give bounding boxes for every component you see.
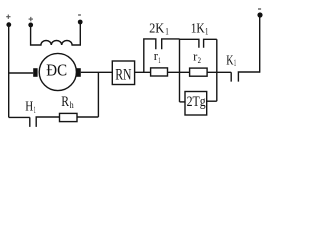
wire junction down to Rh branch bbox=[97, 72, 99, 117]
svg-text:R: R bbox=[61, 94, 69, 110]
wire right vertical up to -4 bbox=[259, 15, 261, 73]
svg-text:2K: 2K bbox=[149, 21, 164, 36]
node leg right of 1K1 down to 2Tg right bbox=[216, 39, 218, 101]
resistor r1 bbox=[151, 68, 168, 76]
wire r1 to r2 bbox=[168, 71, 190, 73]
relay RN box (thermal) bbox=[112, 61, 134, 85]
contact 2K1 (shorting contact over r1) bbox=[144, 39, 180, 72]
terminal +2 (field winding positive) bbox=[28, 17, 33, 27]
svg-text:h: h bbox=[70, 101, 74, 111]
time relay coil 2Tg bbox=[180, 92, 217, 116]
wire motor right brush to relay RN bbox=[81, 71, 113, 73]
resistor Rh (starting rheostat) bbox=[60, 113, 78, 121]
svg-text:ĐC: ĐC bbox=[46, 61, 67, 80]
wire from left vertical to motor left brush bbox=[9, 72, 34, 74]
svg-text:1K: 1K bbox=[191, 21, 205, 36]
contact K1 (line contactor) bbox=[231, 72, 260, 82]
wire RN to r1 bbox=[135, 71, 151, 73]
wire bottom left to H1 contact bbox=[9, 116, 30, 118]
contact 1K1 (shorting contact over r2) bbox=[180, 39, 217, 48]
svg-text:2Tg: 2Tg bbox=[187, 94, 206, 110]
svg-text:RN: RN bbox=[115, 67, 131, 84]
svg-text:1: 1 bbox=[34, 105, 36, 115]
wire r2 to K1 contact bbox=[207, 71, 231, 73]
contact H1 (field weakening / starting contact) bbox=[30, 117, 60, 127]
wire Rh to junction vertical bbox=[77, 116, 98, 118]
terminal -3 (field winding negative) bbox=[78, 15, 83, 24]
terminal -4 (right negative supply) bbox=[257, 9, 262, 18]
svg-text:1: 1 bbox=[234, 58, 236, 68]
svg-text:H: H bbox=[25, 100, 33, 115]
DC motor ĐC bbox=[33, 53, 81, 90]
svg-text:1: 1 bbox=[205, 26, 208, 36]
node leg between contacts down to 2Tg left bbox=[179, 39, 181, 102]
field winding CKT (inductor) bbox=[31, 22, 81, 45]
svg-text:1: 1 bbox=[165, 26, 169, 36]
svg-text:K: K bbox=[226, 52, 233, 67]
wire left vertical from +1 down to Rh branch bbox=[8, 25, 10, 118]
resistor r2 bbox=[190, 68, 208, 76]
svg-text:2: 2 bbox=[198, 55, 201, 65]
svg-text:1: 1 bbox=[158, 55, 160, 65]
terminal +1 (left positive supply) bbox=[6, 15, 11, 28]
